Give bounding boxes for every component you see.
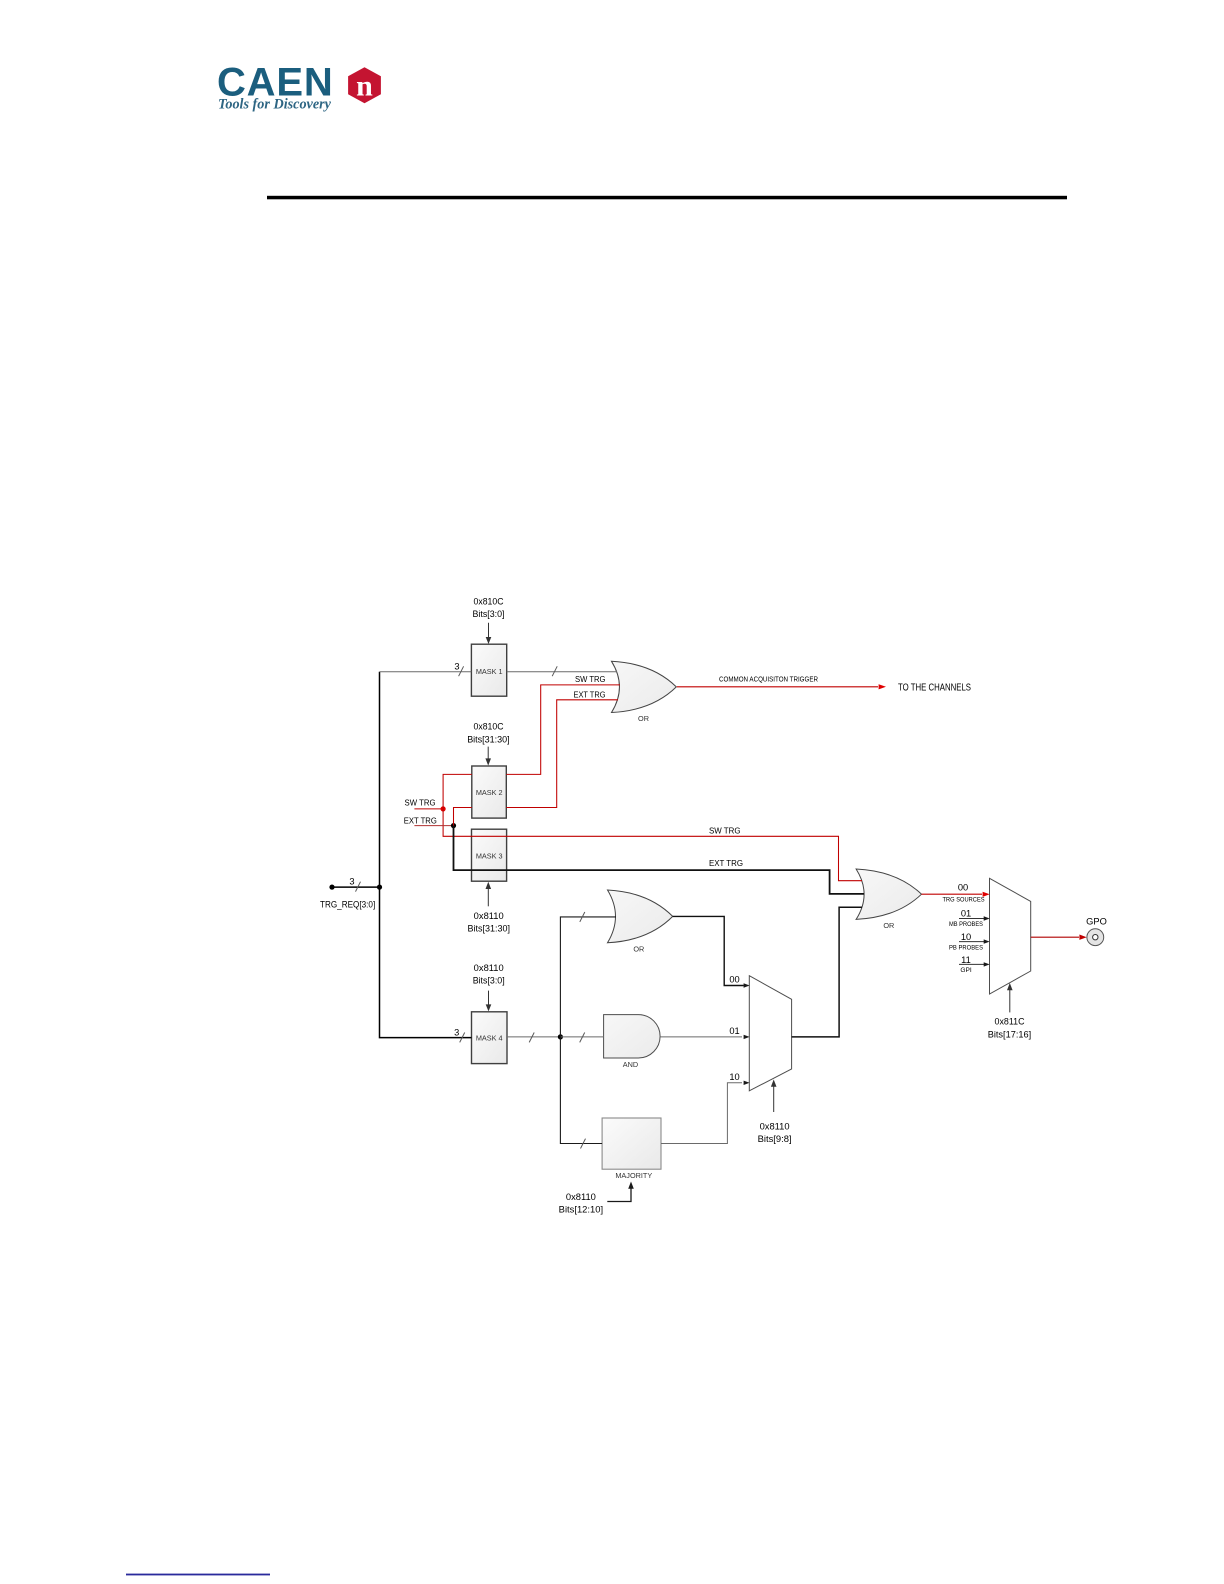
- svg-text:MASK 3: MASK 3: [476, 851, 503, 860]
- footnote rule: [126, 1574, 270, 1576]
- svg-text:0x8110: 0x8110: [566, 1192, 596, 1202]
- CAEN logo wordmark: [217, 61, 334, 113]
- bus width slash on MASK4 input: [460, 1033, 465, 1043]
- config arrow into MASK1 (0x810C Bits[3:0]): [486, 623, 492, 644]
- CAEN logo hexagon emblem: [348, 67, 381, 103]
- bus width slash on MASK4 output: [529, 1033, 534, 1043]
- svg-text:AND: AND: [623, 1060, 638, 1069]
- wire MASK2 output 2 to OR U1 EXT TRG input: [506, 700, 618, 808]
- svg-text:EXT TRG: EXT TRG: [404, 816, 437, 826]
- svg-text:3: 3: [454, 1028, 459, 1038]
- wire MASK2 output 1 to OR U1 SW TRG input: [506, 685, 620, 775]
- svg-text:00: 00: [729, 975, 739, 985]
- wire TRG_REQ vertical bus: [380, 672, 472, 1038]
- label 0x8110 Bits[9:8]: [758, 1122, 792, 1145]
- wire MASK4 output: [507, 1036, 560, 1038]
- wire OR U3 output to mux M1 input 00: [673, 916, 750, 987]
- config arrow into mux M1 (0x8110 Bits[9:8]): [771, 1080, 777, 1113]
- svg-text:GPI: GPI: [960, 967, 972, 974]
- mask block MASK 3: [472, 829, 507, 881]
- label 11 GPI at mux M2: [960, 955, 972, 974]
- svg-text:01: 01: [729, 1026, 739, 1036]
- svg-text:Bits[12:10]: Bits[12:10]: [559, 1205, 603, 1215]
- or-gate U3 (mux input OR): [608, 890, 673, 954]
- or-gate U1 (common acquisition trigger OR): [612, 661, 677, 723]
- svg-text:MASK 4: MASK 4: [476, 1034, 503, 1043]
- wire SW TRG stub (left): [414, 808, 443, 810]
- label 00 TRG SOURCES at mux M2: [943, 883, 986, 904]
- svg-text:OR: OR: [638, 714, 649, 723]
- mask block MASK 2: [472, 766, 507, 818]
- config arrow into mux M2 (0x811C Bits[17:16]): [1007, 983, 1013, 1012]
- wire junction vertical down to MAJORITY input: [560, 1037, 602, 1144]
- svg-text:OR: OR: [633, 945, 644, 954]
- bus width slash on AND input: [580, 1033, 585, 1043]
- svg-text:MAJORITY: MAJORITY: [615, 1171, 652, 1180]
- wire EXT TRG long line to OR U2: [454, 826, 865, 894]
- wire SW TRG long line to OR U2: [443, 809, 862, 881]
- config arrow into MASK2 (0x810C Bits[31:30]): [485, 747, 491, 766]
- svg-text:MASK 2: MASK 2: [476, 788, 503, 797]
- mux M1 (2-bit select mux): [749, 976, 791, 1091]
- svg-text:3: 3: [349, 877, 354, 887]
- bus width slash on MASK1 output: [552, 666, 557, 676]
- svg-text:Bits[3:0]: Bits[3:0]: [473, 609, 505, 619]
- svg-text:EXT TRG: EXT TRG: [574, 689, 606, 699]
- wire mux M2 input 01 stub arrow: [959, 916, 990, 920]
- node MASK4 output junction: [558, 1034, 563, 1039]
- svg-text:GPO: GPO: [1086, 917, 1107, 927]
- wire EXT TRG to MASK2 input 2: [454, 808, 472, 826]
- svg-text:3: 3: [454, 662, 459, 672]
- svg-text:TRG_REQ[3:0]: TRG_REQ[3:0]: [320, 900, 375, 910]
- label 0x8110 Bits[3:0]: [473, 963, 505, 986]
- svg-text:0x8110: 0x8110: [474, 911, 504, 921]
- wire SW TRG to MASK2 input 1: [443, 774, 472, 809]
- label 0x8110 Bits[12:10]: [559, 1192, 603, 1215]
- svg-text:SW TRG: SW TRG: [709, 825, 741, 835]
- label 0x810C Bits[31:30]: [467, 722, 510, 745]
- svg-text:EXT TRG: EXT TRG: [709, 858, 743, 868]
- svg-text:00: 00: [958, 883, 968, 893]
- wire OR U2 output to mux M2 input 00 (red arrow): [922, 892, 990, 897]
- svg-text:Bits[31:30]: Bits[31:30]: [467, 734, 510, 744]
- svg-text:MASK 1: MASK 1: [476, 667, 503, 676]
- svg-text:TO THE CHANNELS: TO THE CHANNELS: [898, 683, 971, 694]
- svg-text:10: 10: [729, 1072, 739, 1082]
- svg-text:0x810C: 0x810C: [474, 722, 504, 732]
- wire AND U4 output to mux M1 input 01: [660, 1035, 750, 1039]
- and-gate U4: [604, 1015, 661, 1069]
- bus width slash on MASK1 input: [459, 666, 464, 676]
- wire junction to AND U4 input: [560, 1036, 604, 1038]
- bus width slash on OR U3 input: [580, 912, 585, 922]
- config arrow into MASK3 (0x8110 Bits[31:30]): [486, 882, 492, 907]
- svg-text:Bits[31:30]: Bits[31:30]: [468, 924, 511, 934]
- svg-text:11: 11: [961, 955, 971, 965]
- svg-text:0x8110: 0x8110: [474, 963, 504, 973]
- svg-text:Bits[3:0]: Bits[3:0]: [473, 976, 505, 986]
- wire mux M2 output to GPO (red arrow): [1031, 935, 1087, 940]
- wire MASK1 output to OR U1: [507, 671, 617, 673]
- svg-text:n: n: [356, 70, 373, 103]
- node SW TRG junction (red): [441, 806, 446, 811]
- svg-text:Bits[9:8]: Bits[9:8]: [758, 1134, 792, 1144]
- header rule: [267, 196, 1067, 200]
- svg-text:Tools for Discovery: Tools for Discovery: [218, 97, 332, 113]
- label 10 PB PROBES at mux M2: [949, 932, 984, 952]
- node bus junction on TRG_REQ bus: [377, 885, 382, 890]
- mask block MASK 4: [472, 1012, 508, 1064]
- svg-text:Bits[17:16]: Bits[17:16]: [988, 1029, 1031, 1039]
- svg-text:OR: OR: [883, 921, 894, 930]
- label 0x811C Bits[17:16]: [988, 1017, 1031, 1040]
- wire MASK1 input: [380, 671, 472, 673]
- majority block MAJORITY: [602, 1118, 661, 1180]
- svg-text:SW TRG: SW TRG: [405, 798, 436, 808]
- wire OR U1 output to the channels (red arrow): [677, 684, 886, 689]
- svg-text:PB PROBES: PB PROBES: [949, 945, 984, 952]
- wire MAJORITY output to mux M1 input 10: [661, 1081, 750, 1144]
- svg-text:0x811C: 0x811C: [995, 1017, 1025, 1027]
- node EXT TRG junction (black): [451, 823, 456, 828]
- or-gate U2 (trigger sources OR): [856, 869, 921, 930]
- wire EXT TRG stub (left): [414, 825, 453, 827]
- svg-text:0x810C: 0x810C: [474, 597, 504, 607]
- svg-text:MB PROBES: MB PROBES: [949, 921, 984, 928]
- mask block MASK 1: [471, 644, 506, 696]
- svg-text:TRG SOURCES: TRG SOURCES: [943, 897, 986, 904]
- wire TRG_REQ input stub: [329, 885, 379, 890]
- bus width slash on TRG_REQ stub: [356, 882, 361, 892]
- label 0x8110 Bits[31:30]: [468, 911, 511, 934]
- svg-text:0x8110: 0x8110: [760, 1122, 790, 1132]
- svg-text:COMMON ACQUISITON TRIGGER: COMMON ACQUISITON TRIGGER: [719, 674, 818, 683]
- wire junction vertical up to OR U3 input: [560, 917, 616, 1037]
- config arrow into MAJORITY (0x8110 Bits[12:10]): [607, 1182, 634, 1202]
- config arrow into MASK4 (0x8110 Bits[3:0]): [486, 991, 492, 1012]
- bus width slash on MAJORITY input: [581, 1139, 586, 1149]
- connector GPO: [1087, 929, 1104, 946]
- svg-text:SW TRG: SW TRG: [575, 674, 606, 684]
- svg-text:10: 10: [961, 932, 971, 942]
- mux M2 (GPO source mux): [990, 878, 1031, 994]
- wire mux M2 input 11 stub arrow: [959, 962, 990, 966]
- label 01 MB PROBES at mux M2: [949, 909, 984, 928]
- wire mux M2 input 10 stub arrow: [959, 939, 990, 943]
- label 0x810C Bits[3:0]: [473, 597, 505, 620]
- svg-text:01: 01: [961, 909, 971, 919]
- wire mux M1 output to OR U2 input: [792, 907, 862, 1037]
